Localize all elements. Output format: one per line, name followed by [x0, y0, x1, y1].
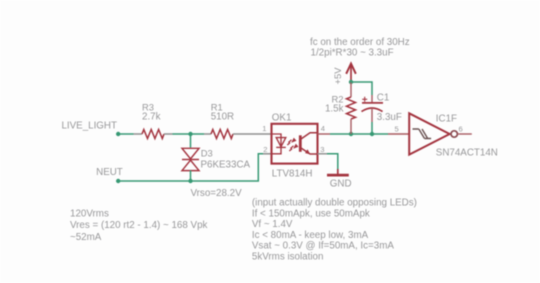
svg-text:+5V: +5V	[332, 67, 343, 85]
svg-text:P6KE33CA: P6KE33CA	[201, 159, 251, 170]
power +5V arrow	[346, 64, 356, 82]
svg-text:D3: D3	[201, 147, 213, 158]
svg-text:If < 150mApk, use 50mApk: If < 150mApk, use 50mApk	[252, 208, 370, 219]
node NEUT terminal	[116, 179, 120, 183]
svg-text:1: 1	[262, 124, 266, 133]
wire OK1 pin 2 stub	[263, 153, 272, 155]
junction node R2 bottom	[349, 132, 353, 136]
svg-text:GND: GND	[330, 179, 352, 190]
inverter IC1F triangle	[409, 113, 449, 154]
svg-text:4: 4	[321, 124, 325, 133]
wire pin4 to inverter input	[330, 133, 388, 135]
svg-text:2: 2	[263, 145, 267, 154]
wire R3 lead right	[164, 133, 173, 135]
wire inverter pin 6 lead	[458, 133, 472, 135]
wire inverter pin 5 lead	[388, 133, 409, 135]
svg-text:120Vrms: 120Vrms	[70, 209, 109, 220]
wire R2 bottom lead	[350, 119, 352, 134]
wire D3 bottom lead	[190, 170, 192, 181]
inverter hysteresis glyph	[413, 129, 432, 139]
wire R3 to junction to R1	[173, 133, 205, 135]
svg-text:Vf ~ 1.4V: Vf ~ 1.4V	[252, 219, 293, 230]
svg-text:5: 5	[395, 124, 399, 133]
optocoupler OK1 body	[272, 124, 318, 164]
svg-text:(input actually double opposin: (input actually double opposing LEDs)	[252, 198, 417, 209]
OK1 phototransistor	[300, 133, 317, 154]
svg-text:1/2pi*R*30 ~ 3.3uF: 1/2pi*R*30 ~ 3.3uF	[311, 47, 394, 58]
svg-text:LIVE_LIGHT: LIVE_LIGHT	[61, 121, 117, 132]
svg-text:~52mA: ~52mA	[70, 232, 102, 243]
wire R1 to OK1 pin 1	[233, 133, 272, 135]
svg-text:3.3uF: 3.3uF	[377, 112, 402, 123]
capacitor C1 top lead	[371, 95, 373, 103]
wire OK1 pin 3 stub	[318, 153, 328, 155]
junction node at D3 bottom	[188, 179, 192, 183]
node LIVE_LIGHT terminal	[116, 132, 120, 136]
svg-text:OK1: OK1	[272, 113, 292, 124]
wire R1 lead left	[204, 133, 211, 135]
svg-text:Ic < 80mA - keep low, 3mA: Ic < 80mA - keep low, 3mA	[252, 230, 369, 241]
wire +5V to R2	[350, 82, 352, 97]
resistor R1	[211, 130, 233, 139]
junction node at D3 top	[188, 132, 192, 136]
svg-text:Vrso=28.2V: Vrso=28.2V	[191, 188, 243, 199]
inverter output bubble	[451, 131, 457, 137]
wire pin 3 to ground	[327, 154, 338, 169]
svg-text:6: 6	[459, 125, 463, 134]
capacitor C1	[362, 97, 384, 112]
svg-text:1.5k: 1.5k	[325, 103, 344, 114]
svg-text:5kVrms isolation: 5kVrms isolation	[252, 251, 324, 262]
svg-text:NEUT: NEUT	[96, 167, 123, 178]
svg-text:LTV814H: LTV814H	[272, 168, 313, 179]
wire C1 bottom lead	[371, 108, 373, 122]
wire D3 top lead	[190, 134, 192, 148]
resistor R3	[142, 130, 164, 139]
svg-text:3: 3	[320, 145, 324, 154]
node +5V junction	[349, 80, 353, 84]
junction node C1 bottom	[370, 132, 374, 136]
resistor R2	[347, 97, 356, 119]
wire NEUT run to riser	[118, 154, 263, 181]
svg-text:C1: C1	[377, 92, 390, 103]
svg-text:2.7k: 2.7k	[142, 111, 161, 122]
svg-text:510R: 510R	[211, 111, 234, 122]
OK1 internal LED	[272, 134, 286, 154]
wire R3 lead left	[134, 133, 143, 135]
svg-text:Vsat ~ 0.3V @ If=50mA, Ic=3mA: Vsat ~ 0.3V @ If=50mA, Ic=3mA	[252, 241, 394, 252]
ground symbol	[327, 169, 349, 175]
wire OK1 pin 4 stub	[318, 133, 331, 135]
svg-text:IC1F: IC1F	[436, 113, 457, 124]
diode D3 TVS bidirectional	[182, 148, 199, 170]
wire +5V node to C1	[351, 82, 372, 95]
OK1 light arrows	[287, 138, 298, 151]
svg-text:SN74ACT14N: SN74ACT14N	[436, 148, 498, 159]
wire C1 to node	[371, 122, 373, 134]
wire LIVE_LIGHT to R3	[118, 133, 133, 135]
svg-text:Vres = (120 rt2 - 1.4) ~ 168 V: Vres = (120 rt2 - 1.4) ~ 168 Vpk	[70, 220, 208, 231]
